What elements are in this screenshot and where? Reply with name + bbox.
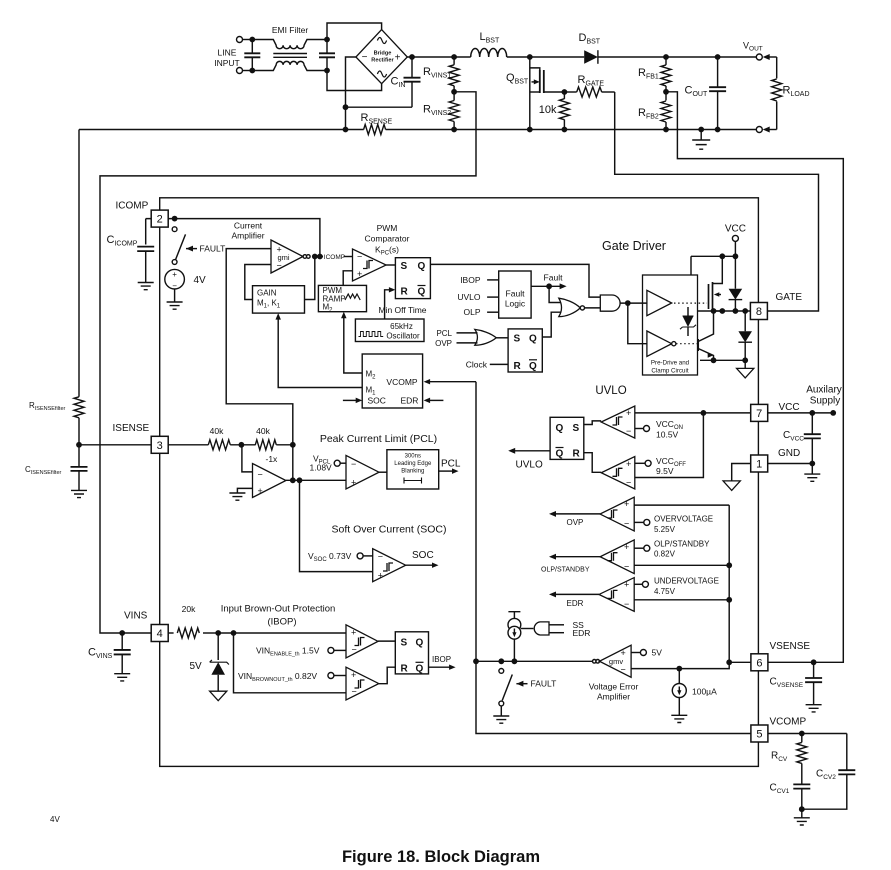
label VSOC 0.73V — [308, 551, 352, 563]
wire ICOMP to node — [168, 219, 320, 257]
wire UV sense — [634, 599, 729, 601]
svg-text:4.75V: 4.75V — [654, 587, 676, 596]
svg-text:VCC: VCC — [725, 224, 746, 235]
pin 3 ISENSE — [151, 436, 168, 453]
ground symbol output — [692, 127, 710, 150]
svg-text:PCL: PCL — [441, 459, 461, 470]
junction RFB divider — [663, 89, 669, 95]
wire NOR to AND — [584, 307, 600, 309]
label RISENSEfilter — [29, 401, 66, 412]
comparator PWM — [353, 249, 387, 281]
svg-text:−: − — [626, 478, 631, 488]
label Fault — [544, 272, 564, 282]
svg-text:INPUT: INPUT — [214, 58, 240, 68]
label VINS pin — [124, 610, 148, 621]
wire pin1 to earth — [732, 464, 751, 481]
svg-text:Amplifier: Amplifier — [231, 231, 264, 241]
svg-text:100µA: 100µA — [692, 687, 717, 697]
wire RISENSEfilter to ISENSE — [78, 418, 80, 445]
label RCV — [771, 751, 788, 764]
resistor RFB2 — [661, 92, 671, 130]
label QBST — [506, 72, 529, 86]
wire AND to buffer2 — [628, 303, 647, 344]
label Min Off Time — [379, 305, 427, 315]
label 5V zener — [190, 661, 203, 672]
svg-text:20k: 20k — [182, 604, 196, 614]
wire fault to NOR — [549, 286, 560, 302]
label UNDERVOLTAGE 4.75V — [654, 577, 719, 597]
wire fault logic output — [531, 283, 567, 289]
wire VEA inverting to VSENSE — [631, 662, 729, 668]
wire EMI to bridge AC bottom — [327, 71, 382, 91]
label RFB1 — [638, 67, 659, 81]
resistor RISENSEfilter — [74, 397, 84, 418]
inductor EMI bottom winding — [252, 61, 327, 70]
label RSENSE — [361, 112, 393, 126]
svg-text:+: + — [624, 499, 629, 509]
label OVERVOLTAGE 5.25V — [654, 515, 713, 535]
svg-text:Voltage Error: Voltage Error — [589, 682, 639, 692]
label VCCON 10.5V — [656, 419, 683, 440]
svg-text:2: 2 — [157, 214, 163, 226]
svg-text:FAULT: FAULT — [200, 244, 226, 254]
label VSENSE pin — [770, 641, 811, 652]
reference VCCON — [635, 426, 650, 432]
wire latch Q to NOR — [542, 312, 561, 337]
junction AND output — [625, 300, 631, 306]
svg-text:8: 8 — [756, 306, 762, 318]
label 40k second — [256, 426, 270, 436]
wire ISENSE left — [79, 444, 151, 446]
junction -1x output — [290, 477, 303, 483]
svg-text:GATE: GATE — [776, 292, 803, 303]
label SOC output — [412, 550, 434, 561]
label PWM Comparator KPC — [365, 223, 410, 257]
transistor output MOSFET — [709, 256, 723, 313]
gate AND SS EDR — [521, 622, 549, 635]
junction RFB2 bottom — [663, 127, 669, 133]
wire RGATE to GATE pin — [615, 92, 819, 311]
svg-text:1: 1 — [756, 459, 762, 471]
svg-text:9.5V: 9.5V — [656, 466, 674, 476]
capacitor CVINS — [114, 633, 131, 674]
wire node to PWM comparator — [321, 256, 353, 258]
comparator IBOP brownout — [346, 667, 379, 700]
resistor RGATE — [564, 87, 614, 97]
svg-text:EDR: EDR — [573, 628, 591, 638]
wire GAIN feedback loop — [245, 265, 271, 300]
label 100uA — [692, 687, 717, 697]
svg-text:Gate Driver: Gate Driver — [602, 239, 666, 253]
diode clamp upper — [729, 256, 743, 311]
label COUT — [685, 85, 708, 99]
comparator VCCON — [601, 406, 635, 438]
svg-text:OLP/STANDBY: OLP/STANDBY — [654, 540, 710, 549]
pin 1 GND — [751, 455, 768, 472]
diode DBST — [584, 50, 598, 64]
wire -1x output to PCL — [286, 479, 346, 481]
wire VCCOFF sense — [635, 413, 704, 478]
capacitor CCV1 — [793, 784, 810, 809]
svg-text:VCC: VCC — [779, 402, 800, 413]
op-amp -1x — [253, 464, 286, 498]
svg-text:5.25V: 5.25V — [654, 525, 676, 534]
svg-text:0.82V: 0.82V — [654, 550, 676, 559]
svg-text:EDR: EDR — [401, 395, 419, 405]
source 100uA — [672, 669, 686, 716]
svg-text:SOC: SOC — [412, 550, 434, 561]
label CIN — [391, 76, 406, 90]
comparator VCCOFF — [601, 457, 635, 490]
svg-text:−: − — [258, 469, 263, 479]
svg-text:4: 4 — [157, 628, 163, 640]
svg-text:OLP: OLP — [463, 307, 480, 317]
label OVP output — [567, 518, 584, 527]
wire ISENSE to 40k — [168, 444, 208, 446]
resistor RFB1 — [661, 54, 671, 92]
wire CICOMP — [137, 219, 154, 283]
box oscillator 65kHz — [355, 319, 424, 342]
label Gate Driver — [602, 239, 666, 253]
inductor EMI top winding — [252, 40, 327, 49]
svg-text:5V: 5V — [652, 648, 663, 658]
label VIN ENABLE 1.5V — [256, 645, 320, 657]
wire EDR input arrow — [424, 398, 444, 403]
junction GND node — [809, 461, 815, 467]
svg-text:IBOP: IBOP — [460, 275, 481, 285]
wire line input top — [243, 40, 253, 71]
junction 40k output node — [290, 442, 296, 448]
comparator OLP STANDBY — [600, 540, 634, 574]
label 4V — [194, 275, 207, 286]
pin 4 VINS — [151, 625, 168, 642]
svg-text:Pre-Drive and: Pre-Drive and — [651, 360, 690, 367]
wire 4V to gnd — [174, 289, 176, 302]
wire DBST to VOUT — [598, 56, 756, 58]
terminal line input + — [237, 37, 243, 43]
wire AND output — [620, 302, 647, 304]
svg-text:UVLO: UVLO — [595, 385, 626, 397]
capacitor CIN — [404, 57, 421, 107]
label IBOP input — [460, 275, 499, 285]
zener clamp internal — [680, 307, 696, 336]
junction RVINS divider — [451, 89, 457, 95]
svg-text:−: − — [624, 519, 629, 529]
junction 10k bottom — [562, 127, 568, 133]
reference UNDERVOLTAGE — [634, 581, 648, 587]
box leading edge blanking — [387, 450, 439, 489]
svg-text:OLP/STANDBY: OLP/STANDBY — [541, 567, 590, 574]
label OVP input — [435, 339, 477, 348]
svg-text:VINS: VINS — [124, 610, 148, 621]
wire pin6 left — [729, 661, 751, 663]
reference OVERVOLTAGE — [634, 519, 650, 525]
svg-text:+: + — [626, 408, 631, 418]
wire bridge negative to gnd rail — [346, 57, 413, 130]
svg-text:10k: 10k — [539, 104, 557, 116]
wire OVP output — [549, 511, 600, 517]
wire VCC to aux — [768, 412, 834, 414]
svg-text:Comparator: Comparator — [365, 234, 410, 244]
wire UVLO output arrow — [508, 448, 550, 454]
source SS EDR current — [508, 612, 521, 662]
diode zener 5V — [210, 633, 229, 691]
svg-text:+: + — [626, 459, 631, 469]
junction ICOMP switch — [172, 216, 178, 222]
label EMI Filter — [272, 25, 309, 35]
capacitor EMI output — [319, 40, 335, 71]
wire oscillator to latch R — [385, 287, 396, 319]
label VCC gate driver — [725, 224, 746, 235]
label CISENSEfilter — [25, 465, 62, 476]
junction VCC row — [719, 253, 738, 259]
transistor clamp BJT — [698, 311, 713, 360]
svg-text:+: + — [258, 486, 263, 496]
ground CVINS — [114, 674, 130, 681]
svg-text:IBOP: IBOP — [432, 655, 451, 664]
svg-text:Q: Q — [416, 637, 424, 648]
resistor 40k second — [255, 440, 276, 450]
reference VPCL — [334, 460, 346, 466]
svg-text:+: + — [624, 580, 629, 590]
svg-text:S: S — [401, 261, 408, 272]
box pre-drive clamp — [643, 275, 698, 375]
label CVSENSE — [770, 677, 804, 690]
svg-text:3: 3 — [157, 440, 163, 452]
label CCV1 — [770, 783, 790, 796]
wire VINS sense top — [218, 632, 346, 634]
junction ISENSE filter node — [76, 442, 82, 448]
junction CVSENSE — [811, 659, 817, 665]
capacitor CVCC — [804, 413, 821, 464]
svg-text:VSENSE: VSENSE — [770, 641, 811, 652]
label DBST — [579, 32, 601, 46]
pin 7 VCC — [751, 404, 768, 421]
svg-text:R: R — [573, 449, 581, 460]
resistor RSENSE — [364, 125, 386, 135]
latch IBOP SR — [395, 632, 428, 675]
label ICOMP node — [324, 254, 345, 261]
resistor RVINS2 — [449, 92, 459, 130]
current output bubbles — [303, 255, 310, 259]
pin 5 VCOMP — [751, 725, 768, 742]
wire SOC output arrow — [406, 562, 439, 567]
svg-text:Logic: Logic — [505, 299, 526, 309]
diode clamp lower — [738, 311, 752, 360]
junction bridge output — [409, 54, 415, 60]
svg-text:+: + — [378, 570, 383, 580]
label VPCL 1.08V — [310, 454, 333, 473]
svg-text:4V: 4V — [50, 815, 60, 824]
EMI core coupling lines — [273, 54, 307, 58]
wire VCOMP node row — [476, 660, 593, 662]
capacitor EMI input — [244, 40, 260, 71]
svg-text:UVLO: UVLO — [457, 292, 481, 302]
box GAIN M1 K1 — [253, 286, 305, 313]
wire PCL to blanking box — [379, 471, 387, 473]
junction aux supply — [809, 410, 836, 416]
junction VCC sense — [701, 410, 707, 416]
ground pin1 earth — [723, 481, 740, 491]
label RFB2 — [638, 107, 659, 121]
svg-text:Soft Over Current (SOC): Soft Over Current (SOC) — [332, 524, 447, 536]
wire RLOAD top — [763, 54, 777, 60]
junction ICOMP node — [312, 254, 323, 260]
svg-text:−: − — [624, 561, 629, 571]
label FAULT arrow top — [186, 244, 225, 254]
wire EMI to bridge AC top — [327, 23, 382, 40]
label Current Amplifier — [231, 221, 264, 241]
svg-text:-1x: -1x — [266, 454, 279, 464]
label CVCC — [783, 430, 804, 443]
label VCOMP pin — [770, 717, 807, 728]
svg-text:40k: 40k — [256, 426, 270, 436]
svg-text:5: 5 — [756, 729, 762, 741]
svg-text:GAIN: GAIN — [257, 289, 277, 298]
label figure caption — [342, 848, 540, 866]
svg-text:Rectifier: Rectifier — [371, 58, 394, 64]
wire current amp + input — [226, 249, 293, 445]
svg-text:Supply: Supply — [810, 396, 841, 407]
svg-text:Oscillator: Oscillator — [386, 332, 420, 341]
label Peak Current Limit — [320, 433, 437, 445]
svg-text:+: + — [395, 53, 401, 64]
junction emitter row — [711, 357, 749, 363]
reference 5V — [631, 650, 646, 656]
junction fault node — [546, 283, 552, 289]
wire VCOMP input — [424, 379, 476, 384]
svg-text:Fault: Fault — [544, 272, 564, 282]
svg-text:UNDERVOLTAGE: UNDERVOLTAGE — [654, 577, 719, 586]
junction OLP sense — [726, 562, 732, 568]
wire 40k to node — [276, 444, 293, 446]
svg-text:R: R — [514, 361, 522, 372]
label PCL input — [436, 329, 477, 338]
junction CVINS — [119, 630, 125, 636]
bridge rectifier — [356, 30, 407, 84]
reference VSOC — [357, 553, 373, 559]
terminal line input - — [237, 68, 243, 74]
svg-text:Q: Q — [418, 261, 426, 272]
svg-text:Q: Q — [556, 423, 564, 434]
junction sense pin6 — [726, 659, 732, 665]
label OLP input — [463, 307, 498, 317]
svg-text:gmv: gmv — [609, 657, 623, 666]
comparator OVERVOLTAGE — [600, 497, 634, 531]
wire latch Q to AND gate — [430, 264, 600, 297]
junction CCV gnd — [799, 806, 805, 812]
label PCL output — [441, 459, 461, 470]
label -1x — [266, 454, 279, 464]
svg-text:+: + — [351, 477, 356, 487]
pin 2 ICOMP — [151, 210, 168, 227]
ground CISENSEfilter — [71, 490, 87, 497]
label RLOAD — [783, 85, 810, 99]
svg-text:SOC: SOC — [368, 395, 386, 405]
svg-text:FAULT: FAULT — [531, 679, 557, 689]
ground gate driver earth — [737, 360, 754, 378]
pin 8 GATE — [750, 303, 767, 320]
ground 4V source — [167, 302, 183, 309]
latch UVLO SR — [550, 417, 584, 459]
svg-text:300ns: 300ns — [405, 454, 421, 460]
capacitor CVSENSE — [805, 662, 822, 704]
svg-text:ICOMP: ICOMP — [324, 254, 345, 261]
svg-text:Blanking: Blanking — [401, 469, 424, 475]
ground fault switch — [493, 716, 509, 723]
junction VCOMP node — [473, 658, 517, 664]
wire OLP sense — [634, 564, 729, 566]
reference VIN BROWNOUT — [328, 673, 346, 679]
svg-text:40k: 40k — [210, 426, 224, 436]
label Clock input — [466, 359, 508, 369]
svg-text:Clock: Clock — [466, 359, 488, 369]
wire PWM comp + input — [343, 271, 352, 286]
svg-text:Auxilary: Auxilary — [806, 385, 842, 396]
junction 100uA node — [676, 666, 682, 672]
svg-text:+: + — [172, 270, 177, 279]
gate OR PCL OVP — [475, 329, 497, 345]
svg-text:S: S — [573, 423, 580, 434]
wire EDR output — [549, 591, 599, 597]
svg-text:Amplifier: Amplifier — [597, 692, 630, 702]
label Voltage Error Amplifier — [589, 682, 639, 702]
svg-text:−: − — [362, 52, 368, 63]
wire feedback tap to VSENSE — [666, 92, 843, 663]
wire -1x output to SOC — [300, 480, 373, 571]
svg-text:1.08V: 1.08V — [310, 463, 333, 473]
terminal VOUT bottom — [756, 127, 762, 133]
label OLP STANDBY output — [541, 567, 590, 574]
wire GND to CVCC — [768, 463, 813, 465]
wire VCOMP net vertical — [476, 382, 751, 734]
label UVLO output — [516, 460, 543, 471]
label IBOP output — [432, 655, 451, 664]
comparator IBOP enable — [346, 625, 378, 658]
wire -1x inverting input — [242, 445, 253, 472]
svg-text:ICOMP: ICOMP — [116, 201, 149, 212]
svg-text:R: R — [401, 287, 409, 298]
label CCV2 — [816, 769, 836, 782]
source 4V — [165, 269, 185, 290]
terminal VCC gate driver — [732, 235, 738, 256]
wire pin5 right — [768, 733, 847, 735]
label OLP STANDBY 0.82V — [654, 540, 710, 559]
svg-text:Q: Q — [418, 287, 426, 298]
svg-text:−: − — [351, 459, 356, 469]
wire bridge positive output — [407, 56, 470, 58]
svg-text:Q: Q — [556, 449, 564, 460]
svg-text:Fault: Fault — [506, 289, 526, 299]
svg-text:−: − — [357, 251, 362, 261]
switch fault VCOMP contact — [499, 669, 504, 674]
wire VCC row — [691, 256, 735, 275]
svg-text:5V: 5V — [190, 661, 203, 672]
gate NOR fault — [559, 298, 585, 316]
label VCC pin — [779, 402, 800, 413]
wire VCC sense to pin7 — [635, 412, 751, 414]
svg-text:−: − — [624, 599, 629, 609]
wire VINS sense bottom — [234, 633, 347, 693]
resistor RCV — [797, 734, 807, 785]
buffer driver high — [647, 290, 672, 315]
op-amp current amplifier gmi — [271, 240, 303, 273]
junction QBST source rail — [527, 127, 533, 133]
svg-text:OVP: OVP — [567, 518, 584, 527]
junction dots EMI output cap — [324, 37, 330, 74]
svg-text:LINE: LINE — [218, 48, 237, 58]
label CVINS — [88, 647, 113, 661]
